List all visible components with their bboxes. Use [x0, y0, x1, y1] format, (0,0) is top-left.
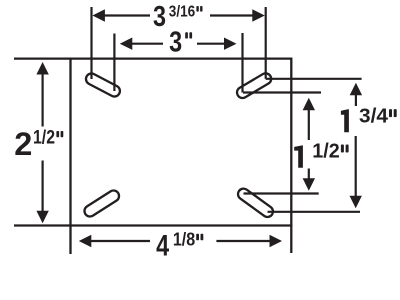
dim 3 shafts [128, 43, 163, 45]
svg-text:3: 3 [153, 1, 166, 33]
dim 3-3/16 shafts [100, 14, 150, 16]
arrow 1-3/4 up [350, 83, 362, 96]
slot line B [243, 91, 321, 93]
dim 1-3/4 shafts [355, 93, 357, 106]
arrow 3-3/16 right [252, 9, 264, 21]
dim 4-1/8 shafts [88, 240, 150, 242]
svg-text:4: 4 [156, 229, 170, 262]
svg-text:1/2: 1/2 [33, 128, 55, 149]
plate bottom edge [14, 224, 292, 226]
slot line C [244, 192, 319, 194]
svg-text:3/4: 3/4 [359, 105, 389, 127]
svg-text:2: 2 [14, 126, 32, 162]
dim 2-1/2 shafts [41, 70, 43, 127]
plate top edge [14, 57, 292, 59]
arrow 1-3/4 down [350, 196, 362, 209]
slot top-left [84, 72, 122, 99]
label 3-3/16 [153, 1, 203, 33]
label 1-3/4 [341, 105, 397, 132]
ext line for 3 right [241, 33, 243, 93]
arrow 2-1/2 down [36, 211, 48, 224]
ext line for 3-3/16 right [265, 7, 267, 79]
slot bottom-left [82, 188, 121, 218]
slot bottom-right [236, 186, 275, 219]
label 2-1/2 [14, 126, 63, 162]
label 3 [169, 26, 192, 58]
arrow 4-1/8 right [270, 235, 283, 247]
arrow 3-3/16 left [92, 9, 105, 21]
arrow 4-1/8 left [79, 235, 92, 247]
svg-text:1/2: 1/2 [312, 140, 340, 162]
label 4-1/8 [156, 229, 203, 263]
arrow 2-1/2 up [36, 62, 48, 75]
slot line D [268, 211, 361, 213]
arrow 3 left [120, 38, 133, 50]
arrow 1-1/2 down [303, 178, 315, 191]
svg-text:1/8: 1/8 [173, 229, 195, 250]
slot top-right [235, 71, 273, 100]
slot line A [266, 78, 362, 80]
dim 1-1/2 shafts [308, 107, 310, 140]
svg-text:3: 3 [169, 26, 182, 58]
arrow 3 right [224, 38, 237, 50]
ext line for 3 left [113, 34, 115, 92]
plate right edge [290, 59, 292, 253]
ext line for 3-3/16 left [90, 7, 92, 79]
arrow 1-1/2 up [303, 98, 315, 111]
label 1-1/2 [294, 140, 348, 167]
svg-text:3/16: 3/16 [169, 4, 196, 21]
plate left edge [69, 59, 71, 254]
